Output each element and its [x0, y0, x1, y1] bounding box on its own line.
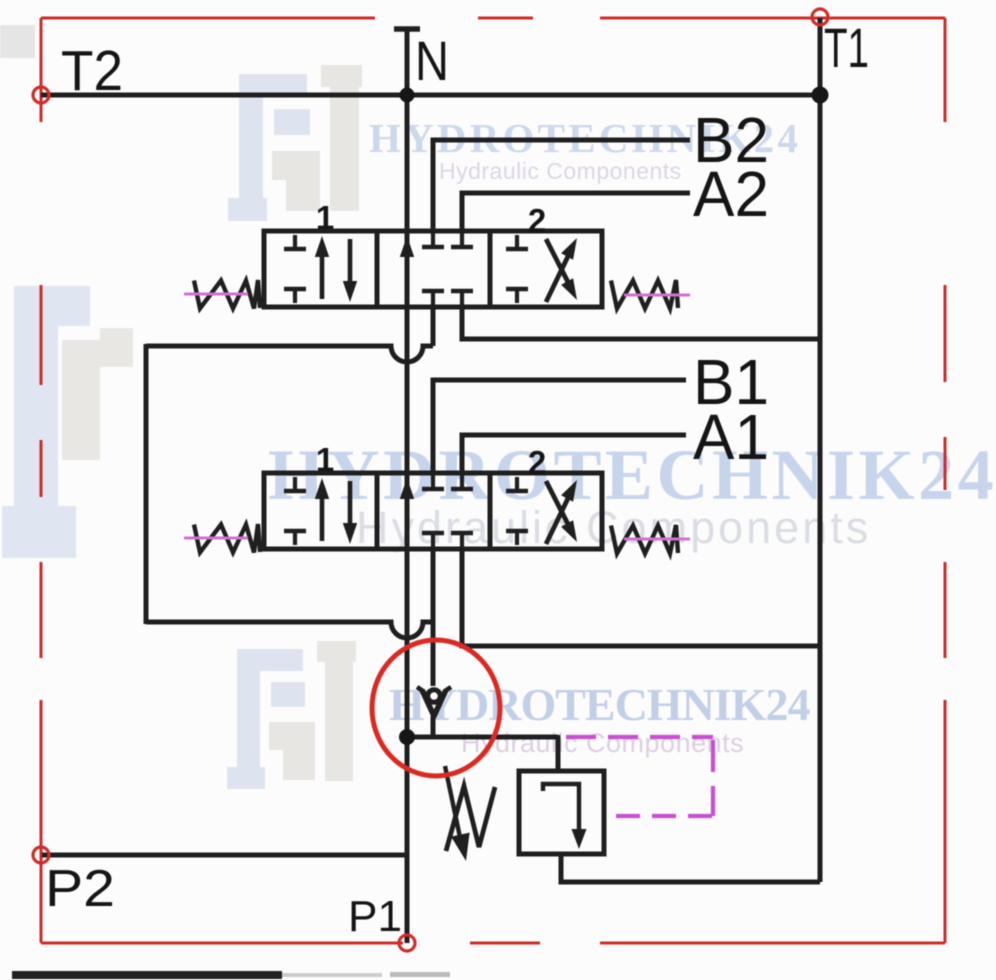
- svg-text:N: N: [415, 29, 449, 92]
- valve V1-section (bottom, ports A1/B1) position-1 blocked port bottom: [284, 531, 306, 545]
- svg-text:HYDROTECHNIK24: HYDROTECHNIK24: [389, 679, 810, 730]
- port marker P2: [33, 847, 49, 863]
- red border right: [944, 18, 947, 943]
- wire P2: [42, 853, 407, 858]
- valve V1-section (bottom, ports A1/B1) centre carry-over arrow: [400, 478, 414, 545]
- wire relief valve outlet to tank gallery: [561, 854, 820, 882]
- valve V2-section (top, ports A2/B2) position-2 blocked port top: [506, 235, 528, 249]
- spring valve-top left: [194, 280, 260, 309]
- valve V1-section (bottom, ports A1/B1) position-1 down arrow: [343, 481, 357, 544]
- valve V2-section (top, ports A2/B2) position-2 crossed arrow down-right: [546, 239, 577, 300]
- wire port A2: [462, 193, 690, 232]
- wire pressure gallery bottom (jump over main line): [146, 622, 433, 638]
- valve V2-section (top, ports A2/B2) position-2 crossed arrow up-right: [546, 238, 577, 302]
- tank symbol above node N: [394, 29, 420, 95]
- check valve seat: [417, 687, 451, 716]
- spring valve-bottom right: [611, 525, 678, 554]
- check valve ball: [428, 690, 441, 703]
- svg-text:Hydraulic Components: Hydraulic Components: [439, 158, 682, 184]
- spring valve-bottom left: [194, 524, 260, 553]
- wire port B1: [433, 380, 686, 474]
- wire port B2: [433, 140, 690, 232]
- spring centre line right lower (magenta): [624, 538, 690, 541]
- wire main pressure line N to P1: [405, 95, 410, 943]
- valve V2-section (top, ports A2/B2) centre blocked port A top: [451, 231, 473, 247]
- spring valve-top right: [611, 280, 678, 309]
- valve V2-section (top, ports A2/B2) position-1 blocked port top: [284, 235, 306, 249]
- valve V2-section (top, ports A2/B2) centre blocked port A bottom: [451, 291, 473, 307]
- valve V2-section (top, ports A2/B2) centre carry-over arrow: [400, 236, 414, 303]
- svg-text:Hydraulic Components: Hydraulic Components: [461, 728, 744, 758]
- valve V1-section (bottom, ports A1/B1) centre blocked port A top: [451, 473, 473, 489]
- spring centre line left lower (magenta): [184, 537, 248, 540]
- valve V2-section (top, ports A2/B2) position-1 up arrow: [315, 236, 329, 299]
- valve V1-section (bottom, ports A1/B1) position-2 blocked port bottom: [506, 531, 528, 545]
- svg-text:T1: T1: [824, 16, 869, 79]
- svg-text:A2: A2: [693, 158, 769, 230]
- wire valve2 tank port to T1 gallery: [462, 548, 818, 646]
- relief valve adjustment spring: [446, 786, 495, 851]
- node N junction: [400, 88, 415, 103]
- svg-text:1: 1: [316, 199, 334, 236]
- valve V2-section (top, ports A2/B2) position-1 down arrow: [343, 239, 357, 302]
- valve V2-section (top, ports A2/B2) position-1 blocked port bottom: [284, 289, 306, 303]
- port marker T1: [812, 9, 828, 25]
- wire check valve outlet: [431, 716, 436, 739]
- svg-text:P2: P2: [45, 860, 115, 918]
- relief valve internal flow arrow: [543, 784, 587, 849]
- valve V2-section (top, ports A2/B2) centre blocked port B bottom: [422, 291, 444, 307]
- red annotation circle around check valve: [372, 640, 500, 776]
- valve V1-section (bottom, ports A1/B1) position-2 crossed arrow up-right: [546, 480, 577, 544]
- valve V1-section (bottom, ports A1/B1) body: [264, 473, 602, 549]
- port marker P1: [399, 935, 415, 951]
- red border left: [40, 18, 43, 943]
- svg-text:P1: P1: [348, 892, 402, 941]
- watermark logo bottom: [227, 641, 356, 789]
- red border bottom: [41, 942, 945, 945]
- watermark logo top: [228, 65, 362, 221]
- red border top: [41, 17, 945, 20]
- valve V1-section (bottom, ports A1/B1) centre blocked port B top: [422, 473, 444, 489]
- svg-text:2: 2: [528, 444, 546, 481]
- wire T2 to T1: [41, 93, 820, 98]
- valve V2-section (top, ports A2/B2) position-2 blocked port bottom: [506, 289, 528, 303]
- wire valve1 tank port to T1 gallery: [462, 306, 818, 339]
- valve V1-section (bottom, ports A1/B1) position-1 up arrow: [315, 478, 329, 541]
- relief valve adjustment arrow: [445, 766, 470, 861]
- valve V1-section (bottom, ports A1/B1) position-2 blocked port top: [506, 477, 528, 491]
- svg-text:1: 1: [316, 441, 334, 478]
- grey corner fragment top-left: [0, 25, 35, 58]
- relief valve RV1 body: [519, 771, 604, 854]
- svg-text:T2: T2: [61, 39, 123, 103]
- wire valve2 bottom port B to check valve: [431, 548, 436, 686]
- valve V1-section (bottom, ports A1/B1) position-1 blocked port top: [284, 477, 306, 491]
- wire relief valve inlet: [556, 735, 561, 773]
- bottom cropped table edge: [12, 971, 450, 979]
- wire port A1: [462, 435, 686, 474]
- valve V2-section (top, ports A2/B2) body: [264, 231, 602, 307]
- valve V1-section (bottom, ports A1/B1) centre blocked port A bottom: [451, 533, 473, 549]
- svg-text:A1: A1: [693, 401, 769, 473]
- spring centre line right (magenta): [624, 294, 690, 297]
- relief valve pilot line (magenta dashed): [566, 737, 713, 816]
- spring centre line left (magenta): [184, 293, 248, 296]
- wire T1 vertical tank gallery: [818, 18, 823, 882]
- wire pressure gallery left: [144, 344, 149, 624]
- valve V2-section (top, ports A2/B2) centre blocked port B top: [422, 231, 444, 247]
- node T1 junction: [812, 87, 829, 104]
- node main line / check valve junction: [399, 729, 415, 745]
- port marker T2: [33, 87, 49, 103]
- watermark logo middle-left: [2, 286, 133, 558]
- wire valve1 bottom port B to gallery: [431, 306, 436, 346]
- wire pressure gallery top (jump over main line): [146, 346, 433, 362]
- wire main line to relief valve: [405, 735, 558, 740]
- valve V1-section (bottom, ports A1/B1) position-2 crossed arrow down-right: [546, 481, 577, 542]
- valve V1-section (bottom, ports A1/B1) centre blocked port B bottom: [422, 533, 444, 549]
- svg-text:2: 2: [528, 202, 546, 239]
